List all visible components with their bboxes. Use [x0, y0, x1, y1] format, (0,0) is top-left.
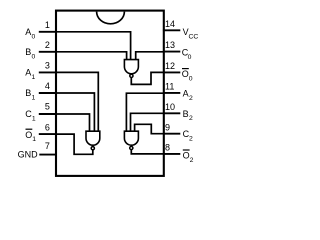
pin 6 label overbar [26, 128, 33, 130]
svg-text:A: A [25, 27, 31, 37]
pin 6 stub [39, 133, 57, 135]
svg-text:7: 7 [45, 141, 50, 151]
svg-text:6: 6 [45, 122, 50, 132]
svg-text:O: O [183, 150, 190, 160]
svg-text:9: 9 [165, 122, 170, 132]
svg-text:2: 2 [45, 40, 50, 50]
wire output U1c to pin 8 O2 [131, 149, 163, 154]
pin 3 stub [39, 71, 57, 73]
NAND gate U1c (bottom right, A2 B2 C2) [124, 131, 138, 149]
svg-text:B: B [25, 88, 31, 98]
wire C2 from pin 9 to gate U1c right input [135, 124, 163, 133]
wire C1 from pin 5 to gate U1b left input [56, 114, 90, 132]
svg-text:11: 11 [165, 82, 174, 92]
wire A2 from pin 11 to gate U1c left input [126, 93, 163, 132]
svg-text:A: A [25, 68, 31, 78]
wire A0 from pin 1 to gate U1a middle input [56, 32, 131, 60]
pin 2 stub [39, 51, 57, 53]
svg-text:1: 1 [32, 115, 36, 122]
svg-text:GND: GND [18, 150, 38, 160]
svg-text:A: A [183, 88, 189, 98]
pin 12 label overbar [182, 68, 189, 70]
wire B1 from pin 4 to gate U1b middle input [56, 93, 94, 132]
pin 8 label overbar [183, 149, 190, 151]
NAND gate U1b (bottom left, A1 B1 C1) [86, 131, 100, 150]
svg-text:1: 1 [45, 20, 50, 30]
wire output U1b to pin 6 O1 [56, 134, 93, 154]
IC body U1 [56, 11, 164, 176]
wire B0 from pin 2 to gate U1a left input [56, 52, 127, 60]
svg-text:2: 2 [190, 157, 194, 164]
svg-text:0: 0 [32, 33, 36, 40]
svg-text:4: 4 [45, 81, 50, 91]
pin 8 stub [163, 153, 180, 155]
svg-text:2: 2 [189, 136, 193, 143]
svg-text:1: 1 [32, 136, 36, 143]
pin 11 stub [163, 92, 180, 94]
pin 4 stub [39, 92, 57, 94]
pin 1 stub [39, 31, 57, 33]
svg-text:1: 1 [32, 74, 36, 81]
wire A1 from pin 3 to gate U1b right input [56, 72, 98, 131]
svg-text:2: 2 [189, 115, 193, 122]
svg-text:14: 14 [165, 19, 175, 29]
svg-text:0: 0 [189, 75, 193, 82]
pin 7 stub [39, 154, 57, 156]
pin 14 stub [163, 29, 180, 31]
svg-text:3: 3 [45, 61, 50, 71]
svg-text:O: O [182, 69, 189, 79]
wire output U1a to pin 12 O0 [131, 72, 163, 84]
svg-text:8: 8 [165, 143, 170, 153]
svg-text:1: 1 [32, 95, 36, 102]
svg-text:13: 13 [165, 40, 175, 50]
svg-text:B: B [183, 109, 189, 119]
pin 5 stub [39, 113, 57, 115]
svg-text:O: O [25, 130, 32, 140]
wire C0 from pin 13 to gate U1a right input [136, 52, 163, 60]
NAND gate U1a (top, A0 B0 C0) [124, 60, 138, 78]
svg-text:CC: CC [189, 33, 199, 40]
svg-text:10: 10 [165, 102, 175, 112]
svg-text:2: 2 [189, 95, 193, 102]
svg-text:12: 12 [165, 61, 175, 71]
notch (index mark) [97, 12, 125, 24]
svg-text:0: 0 [188, 54, 192, 61]
pin 10 stub [163, 112, 180, 114]
pin 13 stub [163, 51, 180, 53]
pin 12 stub [163, 71, 180, 73]
svg-text:0: 0 [32, 53, 36, 60]
svg-text:5: 5 [45, 101, 50, 111]
wire B2 from pin 10 to gate U1c middle input [131, 113, 164, 132]
pin 9 stub [163, 133, 180, 135]
svg-text:B: B [25, 47, 31, 57]
